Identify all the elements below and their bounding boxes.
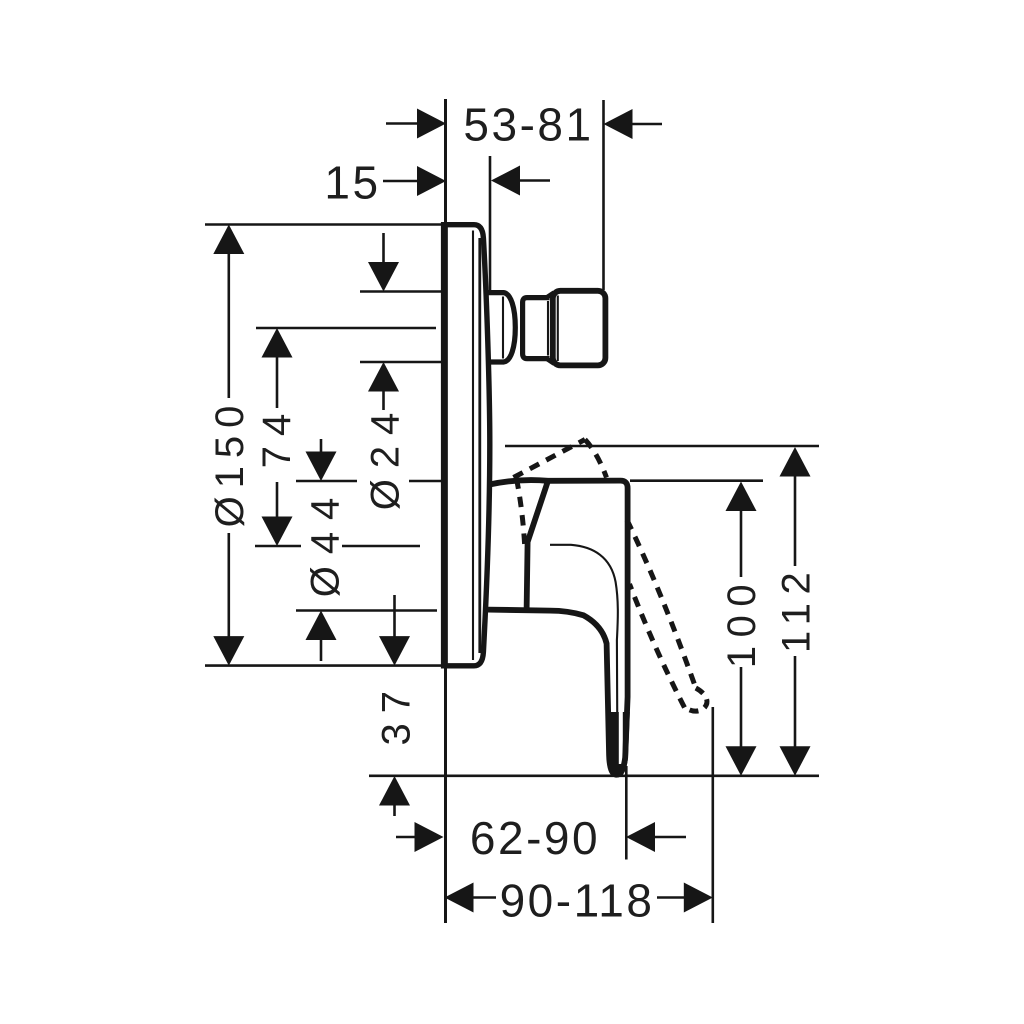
dimension D150: lower line segment [228,533,231,640]
svg-text:112: 112 [775,564,819,653]
dimension 15: extension line at plate front [489,156,492,292]
plate front face line 1 [472,231,474,661]
dimension D24: top extension line [360,290,441,293]
svg-text:74: 74 [255,404,299,469]
dashed handle alternate position: grip right line [627,520,696,688]
dimension 74: top extension line [256,327,436,330]
dimension 100: top arrowhead (pointing up) [726,482,757,512]
dashed handle alternate position: grip tip arc [685,688,707,711]
svg-text:100: 100 [720,576,764,668]
svg-text:62-90: 62-90 [470,812,600,864]
lever hub joint diagonal [527,481,548,610]
knob sleeve (against plate) [487,293,515,362]
dimension D44: upper tail [320,439,323,454]
dimension 112: top extension line [505,445,819,448]
lever handle outline [488,480,628,774]
dimension D44: bottom extension line [296,609,437,612]
dimension D24: top arrowhead (pointing down) [368,262,399,292]
dimension 100: top extension line [630,479,763,482]
dimension 74: lower line segment [276,482,279,519]
dimension 74: top arrowhead [262,328,293,358]
dimension 112: bottom arrowhead (pointing down) [780,746,811,776]
dimension 62-90: left tail [396,836,417,839]
knob end cap [553,291,606,366]
svg-text:Ø24: Ø24 [364,402,408,511]
svg-text:37: 37 [375,681,419,746]
knob end cap face line [557,296,559,362]
dimension 90-118: left tail [472,896,496,899]
dimension 53-81: extension line right of knob cap [602,100,605,290]
dimension D44: bottom arrowhead (pointing up) [306,611,337,641]
dimension 53-81: left arrowhead [417,109,446,139]
dimension D150: top arrowhead [213,225,244,255]
dimension 74: bottom arrowhead [262,517,293,547]
knob neck chamfer bottom [547,359,555,364]
svg-text:Ø44: Ø44 [304,486,348,598]
dimension 15: right tail [520,179,550,182]
escutcheon plate outline [444,225,490,666]
dimension 100: bottom arrowhead (pointing down) [726,746,757,776]
dimension D150: upper line segment [228,252,231,398]
dimension 15: right arrowhead [491,166,520,196]
lever grip tip shading [606,712,630,778]
wall line [444,99,447,923]
dimension 100: lower line segment [740,667,743,748]
dimension 112: upper line segment [794,475,797,567]
knob neck chamfer top [547,293,555,298]
dashed handle alternate position: top-right bend [585,440,607,478]
dimension 100: upper line segment [740,509,743,577]
svg-text:Ø150: Ø150 [208,398,252,528]
dimension 15: left tail [383,180,419,183]
dimension 90-118: right arrowhead (pointing right) [684,883,713,913]
dimension D24: lower tail [382,390,385,410]
svg-text:15: 15 [324,157,380,209]
dimension D44: lower tail [320,638,323,661]
dimension D150: top extension line [205,223,446,226]
dimension 62-90: right arrowhead [626,822,655,852]
dimension 53-81: left tail [386,122,419,125]
dimension 62-90: right tail [655,836,686,839]
dimension 74: upper line segment [276,356,279,408]
dimension 37: lower tail [393,804,396,816]
dashed handle alternate position: top-left line [514,440,586,478]
bottom reference line [369,774,819,777]
dimension D24: bottom extension line [360,361,441,364]
dimension 62-90: left arrowhead [415,822,444,852]
dimension 53-81: right arrowhead [604,109,633,139]
dimension 90-118: left arrowhead (pointing left) [445,883,474,913]
dimension D150: bottom extension line [205,664,462,667]
dimension D44: top extension line segments [296,480,357,483]
dimension 112: lower line segment [794,656,797,748]
dimension 112: top arrowhead (pointing up) [780,447,811,477]
dimension 37: upper tail [393,595,396,638]
svg-text:90-118: 90-118 [500,875,655,927]
dimension D150: bottom arrowhead [213,636,244,666]
dimension D24: upper tail [382,233,385,265]
dimension 37: bottom arrowhead (pointing up) [379,776,410,806]
dashed handle alternate position: left edge [517,479,525,545]
svg-text:53-81: 53-81 [463,99,593,151]
extension line from solid handle tip [625,766,628,860]
dimension D44: top arrowhead (pointing down) [306,452,337,482]
lever inner contour [550,545,618,753]
plate front face line 2 [478,238,481,653]
dimension D24: bottom arrowhead (pointing up) [368,362,399,392]
knob neck face line [547,301,549,356]
extension line from dashed handle tip [711,707,714,923]
dimension 53-81: right tail [633,123,663,126]
knob neck [523,298,550,359]
knob sleeve face line [502,297,504,359]
plate left edge reinforcement [441,227,448,664]
dimension 15: left arrowhead [417,166,446,196]
dimension 90-118: right tail [657,896,685,899]
dashed handle alternate position: grip left line [630,584,685,708]
dimension 37: top arrowhead (pointing down) [379,636,410,666]
dimension 74: bottom extension line segments [255,545,301,548]
